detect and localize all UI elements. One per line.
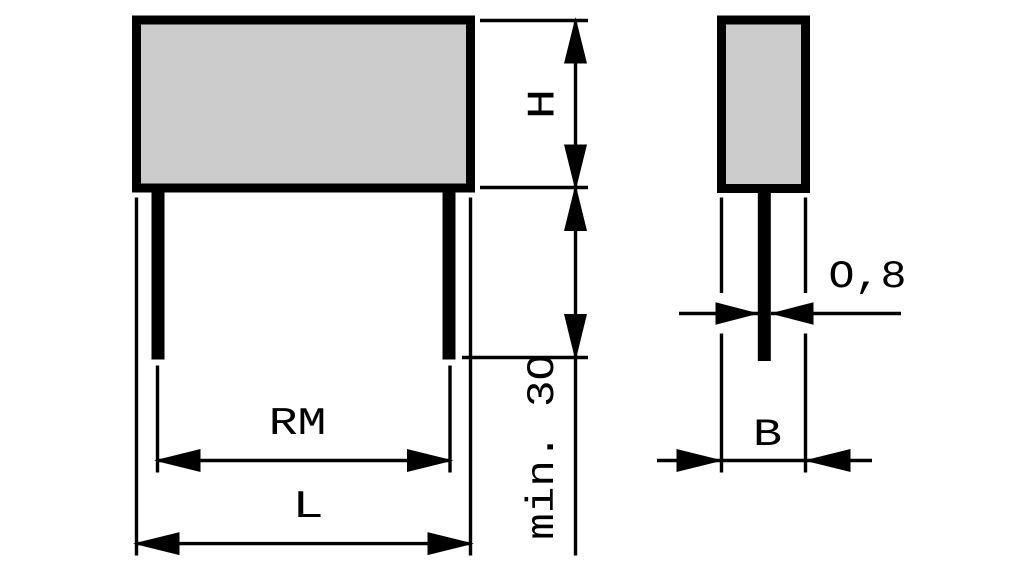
dimension line L xyxy=(137,542,471,545)
right lead front view xyxy=(443,188,456,360)
arrow H up xyxy=(564,17,587,64)
dimension line H / min30 vertical xyxy=(574,21,577,556)
arrow RM left xyxy=(154,449,201,472)
arrow B left xyxy=(677,449,724,472)
extension line H top xyxy=(480,19,588,22)
extension line lead end xyxy=(462,356,588,359)
arrow min30 down xyxy=(564,314,587,361)
svg-text:B: B xyxy=(753,413,782,457)
arrow L right xyxy=(428,532,475,555)
arrow L left xyxy=(133,532,180,555)
arrow min30 up xyxy=(564,184,587,231)
arrow H down xyxy=(564,145,587,192)
dimension line 0,8 right tail xyxy=(771,312,901,315)
svg-text:H: H xyxy=(521,89,566,120)
arrow B right xyxy=(804,449,851,472)
extension line B left upper segment xyxy=(720,198,723,294)
arrow RM right xyxy=(407,449,454,472)
extension line L right xyxy=(469,198,472,556)
dimension line RM xyxy=(158,459,451,462)
svg-text:RM: RM xyxy=(269,403,327,447)
extension line RM left xyxy=(156,366,159,473)
extension line RM right xyxy=(448,366,451,473)
capacitor body side view xyxy=(722,20,806,189)
svg-text:min. 3O: min. 3O xyxy=(520,354,565,540)
extension line B right lower segment xyxy=(804,334,807,473)
extension line B right upper segment xyxy=(804,198,807,294)
arrow 0,8 right xyxy=(770,302,814,324)
capacitor body front view xyxy=(137,20,471,188)
dimension line 0,8 left tail xyxy=(679,312,758,315)
extension line H bottom xyxy=(480,186,588,189)
dimension line B xyxy=(657,459,872,462)
lead side view xyxy=(758,188,771,361)
extension line L left xyxy=(135,198,138,556)
svg-text:O,8: O,8 xyxy=(829,256,907,300)
extension line B left lower segment xyxy=(720,334,723,473)
left lead front view xyxy=(152,188,165,360)
svg-text:L: L xyxy=(292,484,324,529)
arrow 0,8 left xyxy=(716,302,760,324)
